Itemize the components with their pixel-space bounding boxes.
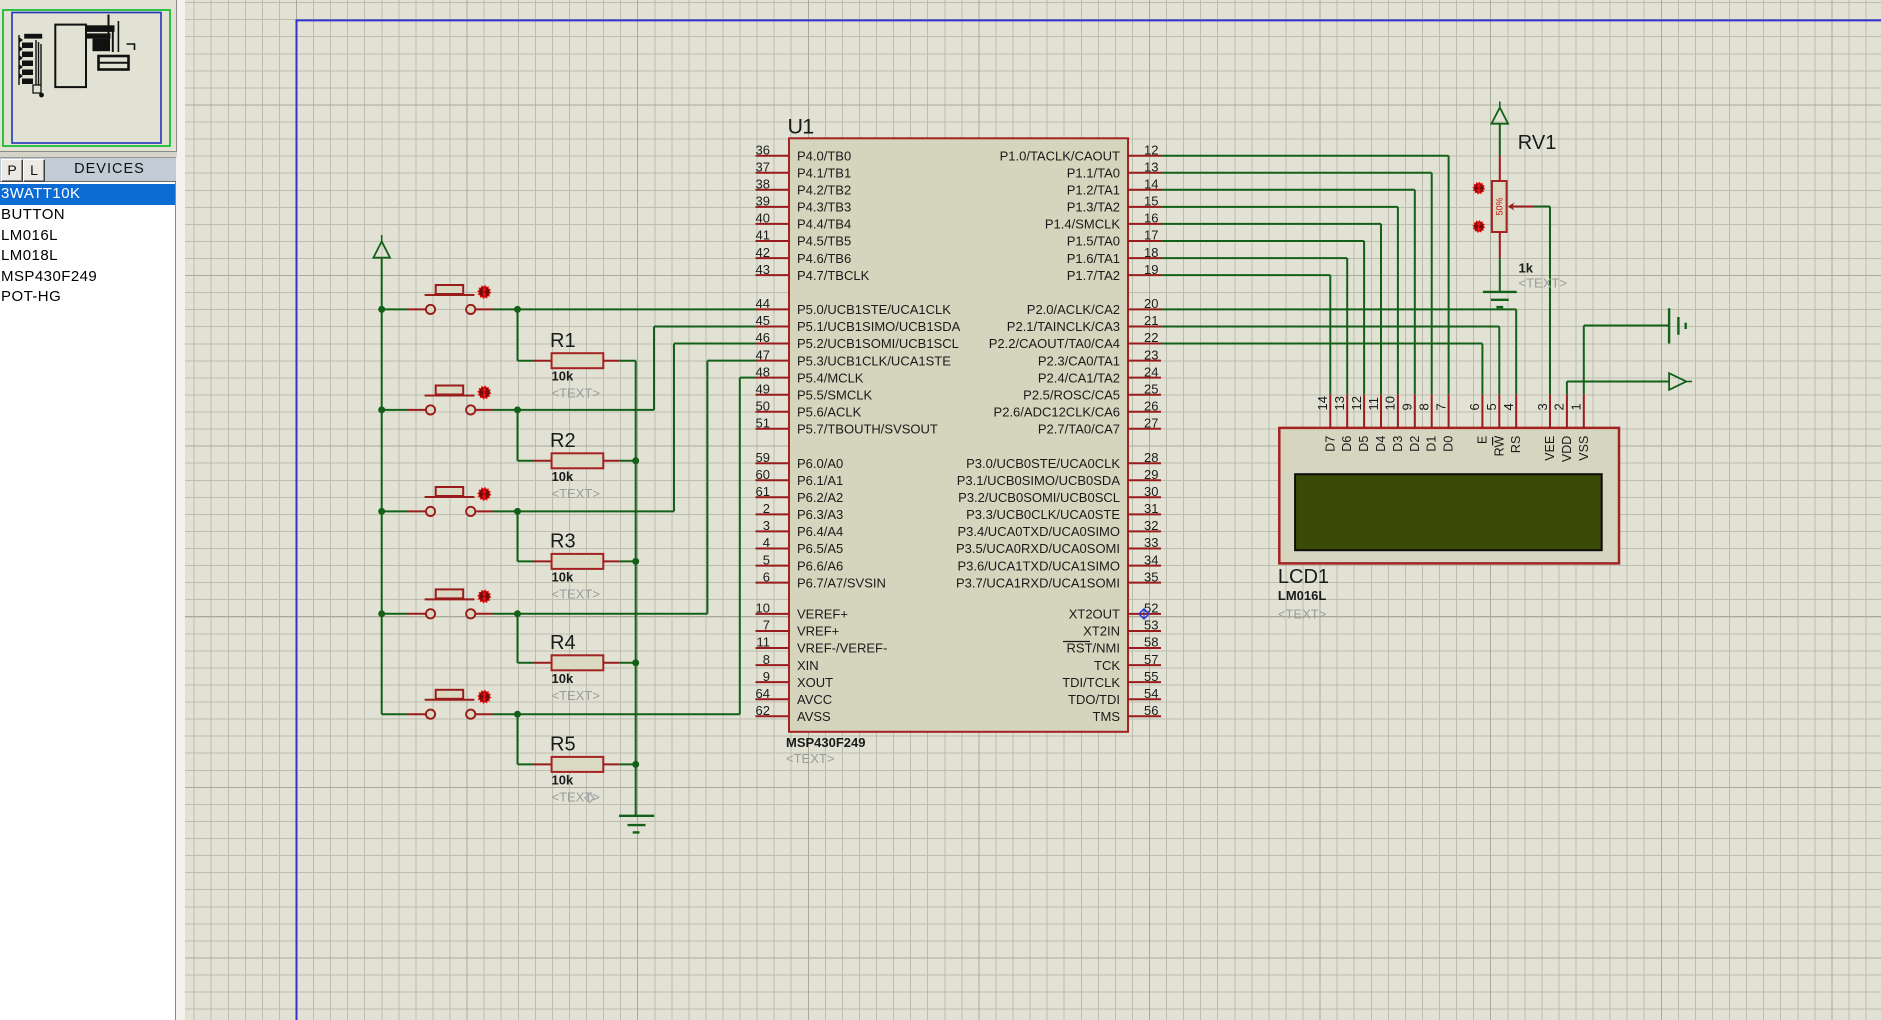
junction button 3 / resistor R3 branch	[514, 508, 521, 515]
LCD1 pin name VEE	[1543, 436, 1557, 461]
LCD1 pin 7 D0 stub	[1448, 394, 1450, 428]
LCD1 reference label	[1278, 566, 1329, 588]
U1 pin 25 P2.5/ROSC/CA5	[1023, 381, 1161, 402]
svg-text:33: 33	[1144, 535, 1158, 550]
U1 pin 33 P3.5/UCA0RXD/UCA0SOMI	[956, 535, 1161, 556]
overview green frame	[3, 10, 170, 146]
wire U1 pin 14 to LCD D2	[1161, 190, 1415, 394]
U1 pin 53 XT2IN	[1083, 618, 1161, 639]
svg-text:P3.1/UCB0SIMO/UCB0SDA: P3.1/UCB0SIMO/UCB0SDA	[957, 473, 1121, 488]
svg-text:AVSS: AVSS	[797, 709, 831, 724]
U1 pin 32 P3.4/UCA0TXD/UCA0SIMO	[957, 518, 1161, 539]
U1 pin 50 P5.6/ACLK	[756, 399, 862, 420]
svg-text:27: 27	[1144, 416, 1158, 431]
junction button 4 / resistor R4 branch	[514, 610, 521, 617]
svg-text:8: 8	[763, 652, 770, 667]
svg-text:P6.6/A6: P6.6/A6	[797, 558, 843, 573]
svg-text:51: 51	[756, 416, 770, 431]
U1 pin 2 P6.3/A3	[756, 501, 844, 522]
U1 pin 45 P5.1/UCB1SIMO/UCB1SDA	[756, 313, 961, 334]
LCD1 pin number 6	[1467, 403, 1482, 410]
svg-text:P1.4/SMCLK: P1.4/SMCLK	[1045, 217, 1120, 232]
wire LCD VDD to power arrow	[1567, 382, 1669, 395]
LCD1 pin number 7	[1433, 403, 1448, 410]
svg-text:P1.2/TA1: P1.2/TA1	[1067, 183, 1120, 198]
svg-text:D6: D6	[1340, 436, 1354, 452]
svg-text:55: 55	[1144, 669, 1158, 684]
wire bus to button 2	[382, 409, 426, 411]
svg-text:2: 2	[1552, 403, 1567, 410]
svg-text:39: 39	[756, 194, 770, 209]
svg-text:<TEXT>: <TEXT>	[786, 751, 834, 766]
U1 pin 8 XIN	[756, 652, 819, 673]
svg-text:62: 62	[756, 703, 770, 718]
U1 pin 58 RST overline	[1063, 641, 1090, 643]
LCD1 value label LM016L	[1278, 588, 1326, 603]
LCD1 pin 9 D2 stub	[1414, 394, 1416, 428]
wire riser up to U1 pin row 377.6	[739, 378, 741, 715]
resistor R5 right lead to ground bus	[603, 763, 635, 765]
svg-text:59: 59	[756, 450, 770, 465]
svg-text:P3.7/UCA1RXD/UCA1SOMI: P3.7/UCA1RXD/UCA1SOMI	[956, 575, 1120, 590]
svg-text:23: 23	[1144, 347, 1158, 362]
device list	[0, 182, 176, 1020]
svg-text:P1.5/TA0: P1.5/TA0	[1067, 234, 1120, 249]
overview mini schematic	[55, 25, 86, 88]
LCD1 pin 14 D7 stub	[1329, 394, 1331, 428]
U1 pin 20 P2.0/ACLK/CA2	[1027, 296, 1161, 317]
wire RV1 wiper to VEE riser	[1534, 206, 1550, 208]
U1 pin 61 P6.2/A2	[756, 484, 844, 505]
LCD1 pin 10 D3 stub	[1397, 394, 1399, 428]
wire button 4 junction right to riser	[518, 613, 708, 615]
svg-text:P4.6/TB6: P4.6/TB6	[797, 251, 851, 266]
svg-text:10k: 10k	[552, 369, 574, 384]
svg-text:VREF-/VEREF-: VREF-/VEREF-	[797, 641, 887, 656]
resistor R2 property label <TEXT>	[552, 486, 600, 501]
U1 pin 22 P2.2/CAOUT/TA0/CA4	[989, 330, 1161, 351]
svg-text:35: 35	[1144, 569, 1158, 584]
svg-text:30: 30	[1144, 484, 1158, 499]
svg-text:32: 32	[1144, 518, 1158, 533]
U1 pin 12 P1.0/TACLK/CAOUT	[1000, 142, 1161, 163]
svg-text:15: 15	[1144, 194, 1158, 209]
svg-text:P2.0/ACLK/CA2: P2.0/ACLK/CA2	[1027, 302, 1120, 317]
U1 pin 29 P3.1/UCB0SIMO/UCB0SDA	[957, 467, 1161, 488]
svg-text:XOUT: XOUT	[797, 675, 833, 690]
RV1 wiper arrow	[1508, 203, 1534, 211]
svg-text:RW: RW	[1492, 436, 1506, 457]
svg-text:R3: R3	[550, 531, 576, 553]
svg-text:LM016L: LM016L	[1278, 588, 1326, 603]
LCD1 pin number 5	[1484, 403, 1499, 410]
LCD1 pin name D5	[1357, 436, 1371, 452]
svg-text:29: 29	[1144, 467, 1158, 482]
wire resistor ground bus vertical	[635, 361, 637, 816]
svg-text:42: 42	[756, 245, 770, 260]
U1 pin 15 P1.3/TA2	[1067, 194, 1161, 215]
svg-text:1k: 1k	[1519, 261, 1534, 276]
wire U1 pin 18 to LCD D6	[1161, 258, 1347, 394]
LCD1 pin number 4	[1501, 403, 1516, 410]
U1 pin 10 VEREF+	[756, 601, 848, 622]
LCD1 pin 11 D4 stub	[1380, 394, 1382, 428]
resistor R4 value label 10k	[552, 671, 574, 686]
U1 pin 39 P4.3/TB3	[756, 194, 852, 215]
svg-text:P6.4/A4: P6.4/A4	[797, 524, 843, 539]
wire button 1 junction to U1 pin 44	[518, 308, 756, 310]
svg-text:19: 19	[1144, 262, 1158, 277]
button 4 right contact	[466, 609, 475, 618]
wire to resistor R1 left lead	[518, 360, 552, 362]
wire button 2 junction right to riser	[518, 409, 655, 411]
svg-text:P1.6/TA1: P1.6/TA1	[1067, 251, 1120, 266]
svg-text:P3.3/UCB0CLK/UCA0STE: P3.3/UCB0CLK/UCA0STE	[966, 507, 1120, 522]
svg-text:TMS: TMS	[1093, 709, 1121, 724]
U1 pin 24 P2.4/CA1/TA2	[1038, 364, 1161, 385]
wire button 5 to junction	[476, 713, 518, 715]
wire U1 pin 22 to LCD E	[1161, 344, 1482, 395]
resistor R3 reference label	[550, 531, 576, 553]
U1 pin 46 P5.2/UCB1SOMI/UCB1SCL	[756, 330, 959, 351]
RV1 value label 1k	[1519, 261, 1534, 276]
svg-text:D3: D3	[1391, 436, 1405, 452]
svg-text:18: 18	[1144, 245, 1158, 260]
svg-text:P6.5/A5: P6.5/A5	[797, 541, 843, 556]
junction button 5 / resistor R5 branch	[514, 711, 521, 718]
svg-text:20: 20	[1144, 296, 1158, 311]
svg-text:10k: 10k	[552, 569, 574, 584]
svg-text:D4: D4	[1374, 436, 1388, 452]
U1 pin 9 XOUT	[756, 669, 834, 690]
svg-text:61: 61	[756, 484, 770, 499]
U1 pin 19 P1.7/TA2	[1067, 262, 1161, 283]
svg-text:P3.4/UCA0TXD/UCA0SIMO: P3.4/UCA0TXD/UCA0SIMO	[957, 524, 1120, 539]
U1 pin 52 XT2OUT	[1069, 601, 1161, 622]
svg-text:P3.2/UCB0SOMI/UCB0SCL: P3.2/UCB0SOMI/UCB0SCL	[958, 490, 1120, 505]
svg-text:VEREF+: VEREF+	[797, 607, 848, 622]
button 1 (BUTTON) actuator cap	[425, 285, 475, 295]
svg-text:25: 25	[1144, 381, 1158, 396]
junction on bus at button 2	[378, 406, 385, 413]
wire riser up to U1 pin row 360.6	[706, 361, 708, 614]
U1 pin 28 P3.0/UCB0STE/UCA0CLK	[966, 450, 1161, 471]
U1 value label MSP430F249	[786, 735, 866, 750]
wire branch down to resistor R2	[517, 410, 519, 461]
LCD1 pin 6 E stub	[1481, 394, 1483, 428]
svg-text:TDO/TDI: TDO/TDI	[1068, 692, 1120, 707]
U1 pin 18 P1.6/TA1	[1067, 245, 1161, 266]
wire RV1 bottom to ground	[1499, 258, 1501, 292]
button 4 left contact	[426, 609, 435, 618]
svg-text:7: 7	[763, 618, 770, 633]
svg-text:VREF+: VREF+	[797, 624, 839, 639]
svg-text:P6.1/A1: P6.1/A1	[797, 473, 843, 488]
svg-text:47: 47	[756, 347, 770, 362]
resistor R1 reference label	[550, 330, 576, 352]
U1 pin 64 AVCC	[756, 686, 833, 707]
svg-text:P6.3/A3: P6.3/A3	[797, 507, 843, 522]
svg-text:P4.0/TB0: P4.0/TB0	[797, 148, 851, 163]
svg-text:10: 10	[1383, 396, 1398, 410]
svg-text:7: 7	[1433, 403, 1448, 410]
svg-text:P4.5/TB5: P4.5/TB5	[797, 234, 851, 249]
junction resistor R3 on ground bus	[632, 558, 639, 565]
svg-text:MSP430F249: MSP430F249	[786, 735, 866, 750]
junction button 1 / resistor R1 branch	[514, 306, 521, 313]
LCD1 pin number 12	[1349, 396, 1364, 410]
U1 pin 16 P1.4/SMCLK	[1045, 211, 1161, 232]
U1 pin 4 P6.5/A5	[756, 535, 844, 556]
svg-text:6: 6	[763, 569, 770, 584]
svg-text:4: 4	[763, 535, 770, 550]
svg-text:P2.7/TA0/CA7: P2.7/TA0/CA7	[1038, 422, 1120, 437]
ground symbol (RV1)	[1483, 292, 1517, 307]
U1 pin 58 RST/NMI	[1067, 635, 1161, 656]
svg-text:P5.7/TBOUTH/SVSOUT: P5.7/TBOUTH/SVSOUT	[797, 422, 938, 437]
U1 pin 55 TDI/TCLK	[1062, 669, 1161, 690]
svg-text:64: 64	[756, 686, 770, 701]
LCD1 pin 5 RW stub	[1498, 394, 1500, 428]
svg-text:P1.1/TA0: P1.1/TA0	[1067, 166, 1120, 181]
svg-text:RST/NMI: RST/NMI	[1067, 641, 1120, 656]
LCD1 pin number 9	[1400, 403, 1415, 410]
svg-text:D2: D2	[1408, 436, 1422, 452]
button 1 state indicator (red actuator)	[477, 285, 491, 299]
svg-text:RS: RS	[1509, 436, 1523, 453]
svg-text:50%: 50%	[1495, 197, 1505, 215]
LCD1 pin number 10	[1383, 396, 1398, 410]
svg-text:44: 44	[756, 296, 770, 311]
svg-text:<TEXT>: <TEXT>	[1278, 607, 1326, 622]
wire button 4 to junction	[476, 613, 518, 615]
junction resistor R4 on ground bus	[632, 659, 639, 666]
resistor R3 value label 10k	[552, 569, 574, 584]
svg-text:P5.5/SMCLK: P5.5/SMCLK	[797, 387, 872, 402]
resistor R5 reference label	[550, 734, 576, 756]
svg-text:P6.0/A0: P6.0/A0	[797, 456, 843, 471]
svg-text:12: 12	[1144, 142, 1158, 157]
RV1 property label <TEXT>	[1519, 276, 1567, 291]
wire power arrow stem to button bus	[381, 258, 383, 310]
svg-text:D5: D5	[1357, 436, 1371, 452]
svg-text:P5.0/UCB1STE/UCA1CLK: P5.0/UCB1STE/UCA1CLK	[797, 302, 951, 317]
marker near ground	[585, 794, 594, 803]
svg-text:<TEXT>: <TEXT>	[552, 386, 600, 401]
LCD1 pin name VDD	[1560, 436, 1574, 462]
LCD1 pin name D4	[1374, 436, 1388, 452]
svg-text:P5.3/UCB1CLK/UCA1STE: P5.3/UCB1CLK/UCA1STE	[797, 353, 951, 368]
resistor R4 reference label	[550, 632, 576, 654]
wire button 3 junction right to riser	[518, 510, 675, 512]
svg-text:P5.2/UCB1SOMI/UCB1SCL: P5.2/UCB1SOMI/UCB1SCL	[797, 336, 959, 351]
button 4 state indicator (red actuator)	[477, 589, 491, 603]
svg-text:E: E	[1475, 436, 1489, 444]
svg-text:11: 11	[1366, 397, 1381, 411]
svg-text:1: 1	[1569, 403, 1584, 410]
U1 pin 41 P4.5/TB5	[756, 228, 852, 249]
U1 pin 7 VREF+	[756, 618, 840, 639]
U1 reference label	[788, 115, 814, 139]
LCD1 pin name D7	[1323, 436, 1337, 452]
svg-text:3: 3	[1535, 403, 1550, 410]
U1 pin 48 P5.4/MCLK	[756, 364, 864, 385]
svg-text:5: 5	[763, 552, 770, 567]
wire button 1 to junction	[476, 308, 518, 310]
LCD1 pin name D6	[1340, 436, 1354, 452]
U1 pin 37 P4.1/TB1	[756, 160, 852, 181]
resistor R2 right lead to ground bus	[603, 460, 635, 462]
junction resistor R5 on ground bus	[632, 761, 639, 768]
resistor R2 reference label	[550, 430, 576, 452]
U1 pin 56 TMS	[1093, 703, 1161, 724]
LCD1 pin name RS	[1509, 436, 1523, 453]
U1 pin 6 P6.7/A7/SVSIN	[756, 569, 886, 590]
svg-text:3: 3	[763, 518, 770, 533]
LCD1 display screen	[1295, 474, 1602, 550]
wire VEE riser down to LCD pin 3	[1549, 207, 1551, 395]
LCD1 pin name E	[1475, 436, 1489, 444]
svg-text:48: 48	[756, 364, 770, 379]
svg-text:10k: 10k	[552, 469, 574, 484]
U1 pin 62 AVSS	[756, 703, 832, 724]
svg-text:XT2OUT: XT2OUT	[1069, 607, 1120, 622]
power terminal above RV1	[1492, 102, 1509, 124]
power terminal (LCD VDD, rotated right)	[1669, 373, 1692, 390]
left sidebar	[0, 0, 185, 1020]
junction button 2 / resistor R2 branch	[514, 406, 521, 413]
U1 pin 3 P6.4/A4	[756, 518, 844, 539]
svg-text:45: 45	[756, 313, 770, 328]
svg-text:VEE: VEE	[1543, 436, 1557, 461]
wire to resistor R5 left lead	[518, 763, 552, 765]
svg-text:P5.1/UCB1SIMO/UCB1SDA: P5.1/UCB1SIMO/UCB1SDA	[797, 319, 961, 334]
svg-text:P2.5/ROSC/CA5: P2.5/ROSC/CA5	[1023, 387, 1120, 402]
wire riser to U1 pin stub	[740, 377, 756, 379]
LCD1 pin number 14	[1315, 396, 1330, 410]
resistor R1 property label <TEXT>	[552, 386, 600, 401]
U1 pin 13 P1.1/TA0	[1067, 160, 1161, 181]
U1 pin 31 P3.3/UCB0CLK/UCA0STE	[966, 501, 1161, 522]
svg-text:R1: R1	[550, 330, 576, 352]
junction on bus at button 4	[378, 610, 385, 617]
wire to resistor R4 left lead	[518, 662, 552, 664]
svg-text:XIN: XIN	[797, 658, 819, 673]
svg-text:10k: 10k	[552, 671, 574, 686]
svg-text:P3.5/UCA0RXD/UCA0SOMI: P3.5/UCA0RXD/UCA0SOMI	[956, 541, 1120, 556]
U1 pin 43 P4.7/TBCLK	[756, 262, 870, 283]
svg-text:13: 13	[1332, 396, 1347, 410]
button 5 state indicator (red actuator)	[477, 690, 491, 704]
RV1 bottom pin	[1499, 232, 1501, 258]
LCD1 pin number 3	[1535, 403, 1550, 410]
svg-text:31: 31	[1144, 501, 1158, 516]
svg-text:P4.1/TB1: P4.1/TB1	[797, 166, 851, 181]
U1 pin 44 P5.0/UCB1STE/UCA1CLK	[756, 296, 952, 317]
resistor R1 body	[552, 353, 604, 368]
svg-text:D0: D0	[1442, 436, 1456, 452]
wire U1 pin 12 to LCD D0	[1161, 156, 1449, 395]
RV1 decrement control (red)	[1472, 220, 1485, 233]
wire branch down to resistor R3	[517, 511, 519, 561]
U1 pin 26 P2.6/ADC12CLK/CA6	[994, 399, 1161, 420]
overview blue frame	[12, 13, 161, 144]
U1 property label <TEXT>	[786, 751, 834, 766]
svg-text:5: 5	[1484, 403, 1499, 410]
wire riser up to U1 pin row 343.5	[673, 344, 675, 512]
resistor R2 body	[552, 453, 604, 468]
button 3 left contact	[426, 507, 435, 516]
wire riser to U1 pin stub	[707, 360, 755, 362]
button 2 (BUTTON) actuator cap	[425, 386, 475, 396]
button 2 state indicator (red actuator)	[477, 385, 491, 399]
wire U1 pin 19 to LCD D7	[1161, 275, 1330, 394]
U1 pin 38 P4.2/TB2	[756, 177, 852, 198]
resistor R1 value label 10k	[552, 369, 574, 384]
svg-text:P4.2/TB2: P4.2/TB2	[797, 183, 851, 198]
button 3 right contact	[466, 507, 475, 516]
svg-text:P3.0/UCB0STE/UCA0CLK: P3.0/UCB0STE/UCA0CLK	[966, 456, 1120, 471]
wire bus to button 3	[382, 510, 426, 512]
svg-text:10k: 10k	[552, 772, 574, 787]
svg-text:XT2IN: XT2IN	[1083, 624, 1120, 639]
svg-text:<TEXT>: <TEXT>	[552, 586, 600, 601]
resistor R3 property label <TEXT>	[552, 586, 600, 601]
svg-text:P1.0/TACLK/CAOUT: P1.0/TACLK/CAOUT	[1000, 148, 1120, 163]
svg-text:D1: D1	[1425, 436, 1439, 452]
wire LCD VSS to ground	[1584, 326, 1669, 395]
svg-text:<TEXT>: <TEXT>	[552, 688, 600, 703]
U1 pin 57 TCK	[1094, 652, 1161, 673]
svg-text:P1.3/TA2: P1.3/TA2	[1067, 200, 1120, 215]
LCD1 pin number 11	[1366, 397, 1381, 411]
resistor R5 property label <TEXT>	[552, 789, 600, 804]
wire riser to U1 pin stub	[654, 326, 756, 328]
RV1 reference label	[1518, 132, 1557, 154]
svg-text:AVCC: AVCC	[797, 692, 832, 707]
svg-text:12: 12	[1349, 396, 1364, 410]
button 1 left contact	[426, 305, 435, 314]
ground symbol (resistor bus)	[619, 816, 654, 833]
button 5 left contact	[426, 710, 435, 719]
LCD1 property label <TEXT>	[1278, 607, 1326, 622]
svg-text:40: 40	[756, 211, 770, 226]
svg-text:RV1: RV1	[1518, 132, 1557, 154]
wire to resistor R3 left lead	[518, 560, 552, 562]
LCD1 pin 8 D1 stub	[1431, 394, 1433, 428]
wire bus to button 4	[382, 613, 426, 615]
wire bus to button 1	[382, 308, 426, 310]
wire riser to U1 pin stub	[674, 343, 756, 345]
LCD1 pin RW overline	[1492, 437, 1494, 446]
button 4 (BUTTON) actuator cap	[425, 589, 475, 599]
svg-text:14: 14	[1315, 396, 1330, 410]
LCD1 pin 13 D6 stub	[1346, 394, 1348, 428]
LCD1 pin 2 VDD stub	[1566, 394, 1568, 428]
svg-text:VSS: VSS	[1577, 436, 1591, 461]
U1 pin 47 P5.3/UCB1CLK/UCA1STE	[756, 347, 952, 368]
svg-text:P5.4/MCLK: P5.4/MCLK	[797, 370, 864, 385]
svg-text:R2: R2	[550, 430, 576, 452]
svg-text:41: 41	[756, 228, 770, 243]
svg-text:6: 6	[1467, 403, 1482, 410]
svg-text:28: 28	[1144, 450, 1158, 465]
button 2 left contact	[426, 405, 435, 414]
LCD1 pin 12 D5 stub	[1363, 394, 1365, 428]
svg-text:38: 38	[756, 177, 770, 192]
U1 pin 60 P6.1/A1	[756, 467, 844, 488]
wire U1 pin 17 to LCD D5	[1161, 241, 1364, 394]
